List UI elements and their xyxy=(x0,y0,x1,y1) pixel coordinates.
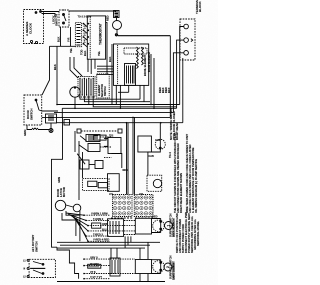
latch motor circle xyxy=(55,200,65,210)
thermostat wires right xyxy=(106,23,107,75)
diag wires thermostat to cluster xyxy=(70,57,95,78)
big element box xyxy=(114,44,149,85)
fan-out wires from latch area xyxy=(66,213,88,241)
terminal circles xyxy=(184,24,189,29)
thermostat bottom labels xyxy=(69,15,110,56)
left long vertical xyxy=(52,117,63,247)
zigzag elements xyxy=(137,47,139,69)
middle relay column xyxy=(86,135,100,142)
small box on bus line xyxy=(64,120,70,126)
note circled numbers xyxy=(165,222,173,230)
motor circle top xyxy=(113,21,122,30)
door switch dashed box xyxy=(24,95,42,125)
lower bake element xyxy=(110,258,120,276)
cluster to bus wires xyxy=(80,95,177,107)
clock A-series dashed box xyxy=(24,10,44,44)
yel wire left xyxy=(50,45,76,47)
cluster right dashed box xyxy=(97,74,110,98)
lock switch contacts xyxy=(63,14,65,16)
notes text bottom right xyxy=(169,212,201,279)
infinite switch cluster xyxy=(78,77,95,98)
wire clock to lock switch xyxy=(42,12,60,18)
coil under door switch xyxy=(27,125,49,130)
thermostat inner dashed box xyxy=(75,23,81,47)
bottom right relay boxes xyxy=(108,219,124,237)
box labels right mid xyxy=(109,136,144,197)
row terminal dots xyxy=(83,214,89,279)
stepped wires bottom left xyxy=(57,247,79,279)
thick neutral line xyxy=(118,35,170,37)
thermostat contacts xyxy=(83,23,90,45)
broil element symbol xyxy=(153,220,165,232)
bottom middle rows xyxy=(84,215,135,279)
motor circle mid xyxy=(70,87,80,97)
long horizontal bus lines xyxy=(57,104,180,106)
thermostat outer box xyxy=(87,16,105,59)
junction dots on bus xyxy=(56,104,161,124)
relay coil box on bus xyxy=(46,114,57,123)
wire top rail xyxy=(62,10,116,11)
terminal block dashed box xyxy=(180,19,195,60)
notes text upper block xyxy=(168,133,198,213)
wires cluster to big box xyxy=(97,66,113,74)
wire color labels xyxy=(158,87,171,93)
terminal wires to verticals xyxy=(180,27,184,105)
dashed link line xyxy=(81,130,118,132)
bottom horizontal lines xyxy=(57,242,160,248)
hatched box inside big box xyxy=(125,64,136,86)
twin verticals xyxy=(127,117,135,194)
right mid boxes xyxy=(104,138,108,146)
connector grid right xyxy=(134,195,153,217)
connector grid left xyxy=(113,195,133,217)
notes text mid right xyxy=(169,109,179,140)
clock terminals xyxy=(30,40,32,42)
rotary switch dashed box xyxy=(29,259,55,277)
wires below lock switch xyxy=(61,27,71,46)
row labels xyxy=(90,212,109,280)
lock switch dashed box xyxy=(59,10,69,27)
coil cross symbol xyxy=(49,129,53,133)
